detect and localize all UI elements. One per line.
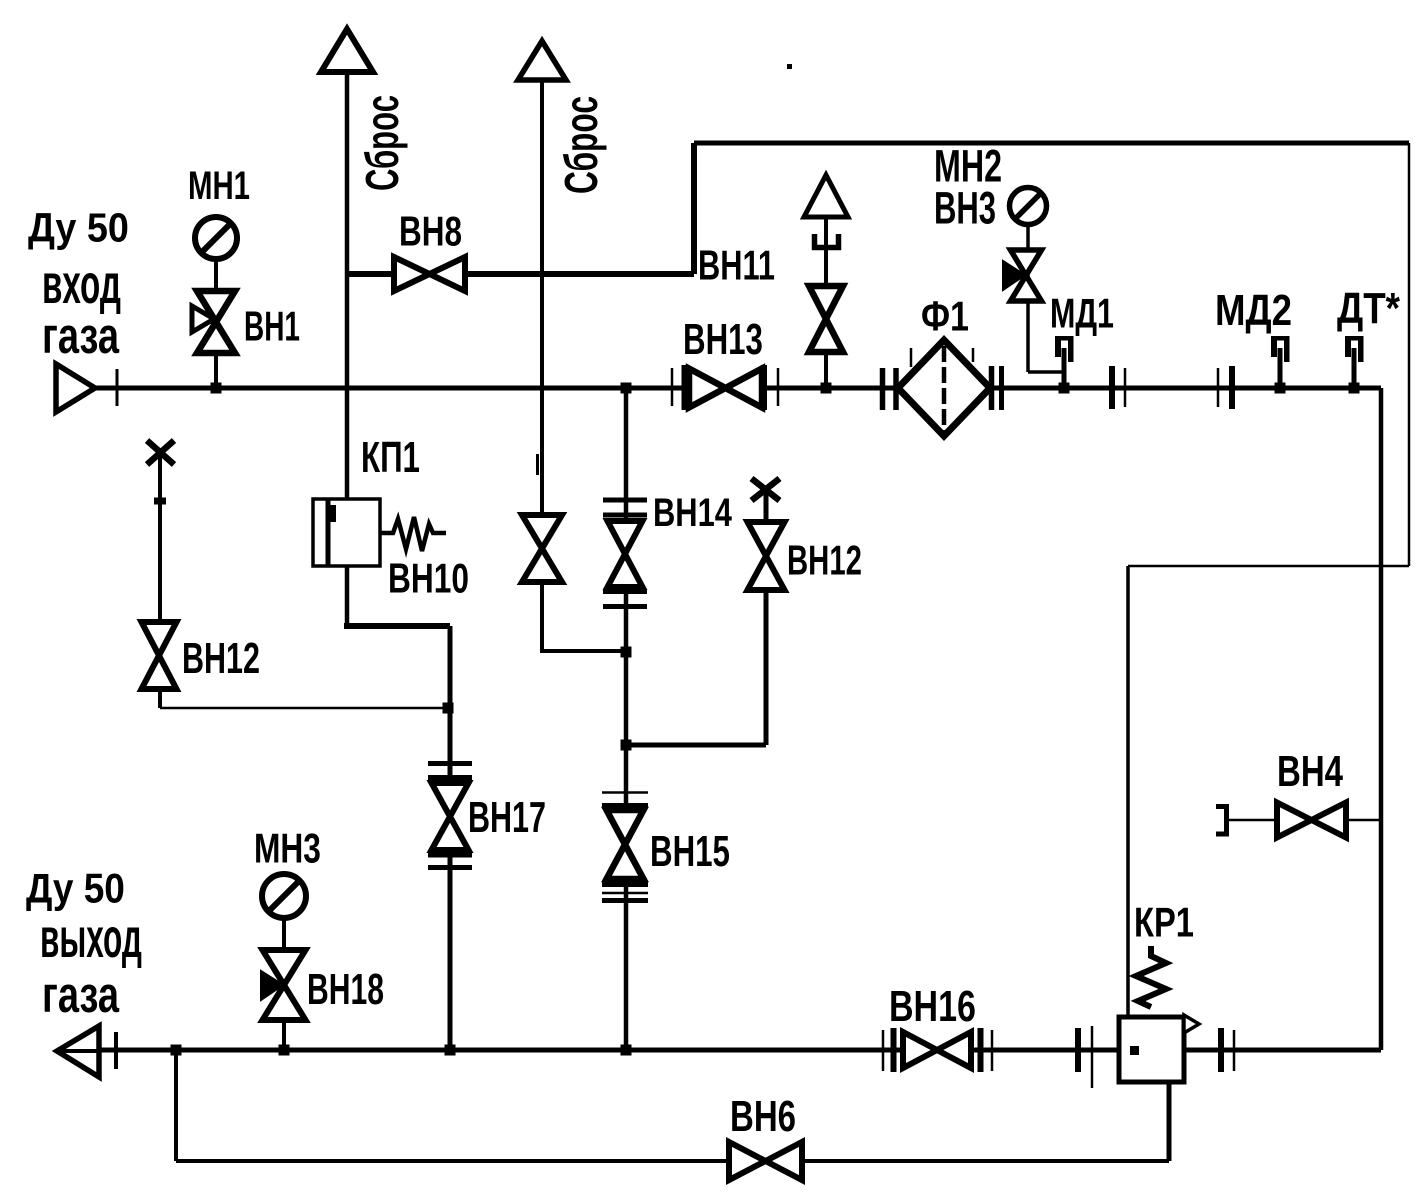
wire bypass drop at outlet: [174, 1050, 178, 1161]
wire BH12 right branch riser: [764, 490, 769, 745]
flange bar Ф1 right inner: [989, 366, 995, 410]
wire BH17 branch drop: [448, 626, 453, 1050]
vent outlet BH11 vent triangle: [804, 175, 848, 217]
flange bar Ф1 left inner: [893, 368, 899, 410]
inlet arrow Ду50 вход газа: [56, 364, 95, 412]
junction node outlet-bypass: [171, 1045, 182, 1056]
svg-text:ВН12: ВН12: [182, 634, 260, 683]
svg-text:МД2: МД2: [1215, 285, 1292, 335]
wire vent stack 2: [540, 78, 544, 651]
svg-text:ВН12: ВН12: [787, 536, 862, 584]
BH4 end cap bracket: [1216, 807, 1227, 835]
flange bar BH17 bottom bar 1: [428, 853, 472, 858]
wire MD2 stem: [1278, 348, 1283, 388]
BH11 seat bracket: [815, 234, 839, 248]
svg-text:Ф1: Ф1: [921, 293, 969, 340]
junction node BH12left-BH17: [443, 703, 454, 714]
flange bar Ф1 left outer: [880, 368, 886, 410]
svg-text:ВН8: ВН8: [399, 207, 462, 255]
flange bar BH14 bottom bar 2: [603, 604, 647, 609]
flange bar BH13 right inner: [761, 365, 767, 410]
flange bar outlet tick: [114, 1032, 118, 1069]
tick on vent stack 2: [536, 454, 539, 475]
wire BH3 run to MD1: [1028, 370, 1064, 374]
wire MN3 gauge stem: [282, 915, 286, 1050]
svg-text:ВН17: ВН17: [468, 793, 546, 842]
junction node vent2-middle: [621, 647, 632, 658]
svg-text:выход: выход: [40, 906, 142, 969]
flange bar BH16 right inner: [978, 1028, 984, 1072]
wire regulator KP1 bottom connection: [1167, 1082, 1172, 1161]
flange bar BH15 bottom bar 1: [602, 882, 648, 887]
valve BH11 vent valve: [809, 286, 843, 352]
КП1 spring BH10: [380, 517, 446, 551]
weld tick left of Ф1 top: [910, 348, 913, 367]
valve BH12 left: [142, 622, 177, 689]
flange bar BH13 left inner: [682, 365, 688, 410]
wire bypass run BH6: [176, 1159, 1169, 1163]
junction node main-MD2: [1275, 383, 1286, 394]
svg-text:газа: газа: [42, 966, 120, 1024]
svg-text:КР1: КР1: [1134, 898, 1194, 945]
flange bar КР1 right thick: [1218, 1028, 1224, 1072]
stray dot artifact: [787, 64, 792, 69]
wire relief branch riser: [691, 143, 697, 274]
svg-text:ВН1: ВН1: [244, 303, 300, 350]
wire relief branch BH8: [347, 271, 694, 277]
svg-text:ВН6: ВН6: [730, 1092, 796, 1141]
flange bar union after MD1 thick: [1109, 366, 1115, 409]
wire MD1 stem: [1062, 348, 1067, 388]
wire KP1 outlet elbow: [344, 623, 450, 629]
flange bar Ф1 right outer: [999, 366, 1004, 410]
flange bar BH17 top bar 2: [428, 775, 472, 780]
valve BH13: [689, 369, 762, 408]
flange bar КР1 right thin: [1233, 1030, 1236, 1071]
BH1 hollow side arrow: [192, 306, 214, 332]
weld tick right of Ф1 top: [972, 348, 975, 362]
junction node main-MD1: [1059, 383, 1070, 394]
valve BH12 right: [748, 522, 785, 590]
flange bar BH14 bottom bar 1: [603, 589, 647, 594]
svg-text:Сброс: Сброс: [556, 96, 607, 194]
junction node main-BH11: [821, 383, 832, 394]
flange bar BH15 top thin bar: [602, 791, 648, 794]
vent outlet vent 2 triangle: [518, 41, 566, 80]
wire BH12 right branch horizontal: [626, 743, 766, 748]
DT temperature tap symbol: [1345, 336, 1364, 362]
flange bar inlet tick: [116, 369, 119, 406]
svg-text:ВН18: ВН18: [307, 964, 384, 1013]
flange bar BH17 bottom bar 2: [428, 865, 472, 870]
vent outlet vent 1 triangle: [321, 29, 373, 72]
closed-end mark on BH12 right: [752, 479, 780, 501]
tick on BH12 left branch: [154, 498, 166, 505]
safety shut-off valve КП1: [313, 499, 380, 566]
flange bar BH15 bottom bar 2: [602, 898, 648, 903]
flange bar BH13 right outer: [777, 368, 780, 406]
valve BH16: [903, 1032, 971, 1068]
flange bar КР1 left thick: [1075, 1028, 1081, 1072]
valve BH17: [432, 783, 469, 850]
wire BH3 stem: [1026, 222, 1030, 372]
junction node BH12right-middle: [621, 740, 632, 751]
valve BH15: [607, 810, 644, 879]
svg-text:МН3: МН3: [254, 824, 321, 871]
flange bar BH16 right outer: [991, 1030, 994, 1071]
outlet arrow centerline: [57, 1049, 99, 1053]
svg-text:ВН15: ВН15: [650, 827, 730, 877]
junction node main-middle branch: [621, 383, 632, 394]
flange bar BH15 top thick bar: [602, 803, 648, 808]
КР1 spring: [1136, 946, 1166, 1007]
svg-text:вход: вход: [42, 252, 121, 315]
flange bar BH14 top bar 1: [603, 498, 647, 503]
pressure gauge MH1: [195, 217, 237, 259]
MD1 pressure tap symbol: [1055, 336, 1074, 362]
svg-text:газа: газа: [42, 307, 120, 365]
valve BH6: [729, 1142, 802, 1180]
svg-text:ДТ*: ДТ*: [1337, 283, 1400, 333]
svg-text:МД1: МД1: [1050, 290, 1114, 337]
wire DT stem: [1352, 348, 1357, 388]
wire top relief header: [694, 141, 1409, 146]
valve BH1: [197, 291, 235, 353]
wire vent stack 1: [345, 70, 350, 500]
flange bar BH16 left outer: [882, 1030, 885, 1071]
flange bar BH14 top bar 2: [603, 513, 647, 518]
svg-text:ВН10: ВН10: [388, 554, 469, 601]
junction node outlet-BH15: [621, 1045, 632, 1056]
valve BH3: [1003, 250, 1042, 301]
flange bar BH13 left outer: [671, 368, 674, 406]
valve BH18: [261, 950, 306, 1020]
valve vent 2 valve: [522, 515, 562, 582]
wire BH12 left branch: [158, 452, 162, 708]
filter Ф1: [898, 340, 990, 436]
wire BH4 branch: [1229, 819, 1381, 822]
flange bar BH17 top bar 1: [428, 761, 472, 766]
junction node outlet-BH17: [445, 1045, 456, 1056]
valve BH8: [394, 257, 465, 291]
svg-text:КП1: КП1: [361, 433, 420, 483]
wire main inlet header: [95, 386, 1381, 391]
flange bar BH15 bottom thin bar: [602, 892, 648, 895]
svg-text:Ду 50: Ду 50: [28, 205, 129, 251]
pressure gauge MH2: [1010, 188, 1047, 225]
wire BH12 left branch run: [160, 707, 448, 710]
svg-text:МН1: МН1: [188, 164, 250, 208]
junction node main-DT: [1349, 383, 1360, 394]
svg-text:ВН11: ВН11: [698, 242, 775, 289]
wire MN1 gauge stem: [214, 240, 218, 388]
svg-text:ВН4: ВН4: [1277, 747, 1343, 796]
wire right downcomer to regulator outlet: [1379, 388, 1384, 1050]
flange bar КР1 left thin: [1091, 1026, 1094, 1088]
MD2 pressure tap symbol: [1271, 336, 1290, 362]
wire impulse run: [1128, 565, 1409, 568]
wire impulse drop right: [1408, 143, 1411, 566]
junction node inlet-BH1: [211, 383, 222, 394]
wire impulse line to KP1 regulator: [1126, 566, 1130, 1019]
svg-text:ВН3: ВН3: [934, 184, 996, 234]
valve BH4: [1277, 803, 1346, 838]
outlet arrow Ду50 выход газа: [57, 1026, 99, 1077]
svg-text:ВН14: ВН14: [653, 490, 732, 535]
svg-text:Сброс: Сброс: [357, 95, 409, 191]
junction node outlet-BH18: [279, 1045, 290, 1056]
svg-text:ВН13: ВН13: [683, 315, 763, 365]
wire middle branch BH14-BH15: [624, 388, 629, 1050]
wire vent 2 elbow: [540, 649, 626, 653]
pressure gauge MH3: [262, 874, 306, 918]
wire BH11 vent stem: [824, 215, 828, 388]
svg-text:Ду 50: Ду 50: [26, 865, 125, 912]
flange bar union before MD2 thick: [1229, 366, 1235, 409]
svg-text:ВН16: ВН16: [889, 982, 976, 1031]
pressure regulator КР1: [1119, 1015, 1199, 1082]
flange bar BH16 left inner: [891, 1028, 897, 1072]
wire outlet header: [57, 1048, 1381, 1053]
valve BH14: [608, 521, 643, 587]
wire KP1 outlet drop: [345, 566, 350, 628]
flange bar union before MD2 thin: [1217, 368, 1220, 407]
flange bar union after MD1 thin: [1124, 368, 1127, 407]
closed-end mark on BH12 left: [147, 441, 174, 465]
